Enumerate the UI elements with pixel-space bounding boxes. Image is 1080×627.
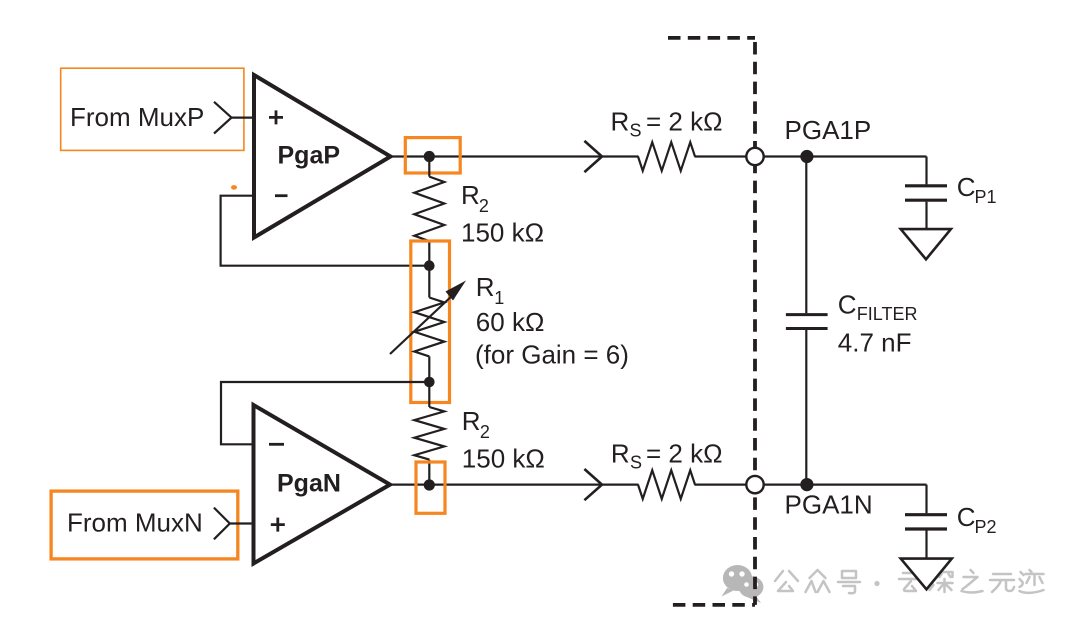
R1 variable arrow head — [446, 281, 467, 301]
watermark wechat icon — [722, 565, 764, 603]
glyph hao — [838, 571, 860, 593]
svg-text:4.7 nF: 4.7 nF — [838, 327, 912, 357]
highlight box PgaP output node — [405, 138, 460, 173]
svg-text:PgaP: PgaP — [278, 141, 341, 169]
capacitor CP1 plates — [905, 186, 947, 200]
capacitor CP2 wire lower — [925, 531, 927, 559]
svg-text:R: R — [611, 439, 630, 469]
node PgaP output junction dot — [424, 151, 435, 162]
svg-text:2: 2 — [479, 196, 489, 216]
wire boundary to PGA1N node — [764, 484, 927, 486]
wire MuxN input to PgaN + — [230, 522, 256, 524]
highlight box PgaN output node — [416, 462, 445, 513]
resistor R1 zigzag — [414, 298, 444, 357]
glyph middle dot — [874, 581, 879, 586]
R1 variable arrow shaft — [390, 293, 455, 354]
glyph shen — [930, 572, 953, 592]
signal arrow top wire — [584, 141, 602, 172]
op-amp PgaN — [254, 405, 391, 564]
svg-text:From MuxP: From MuxP — [70, 102, 204, 132]
svg-text:2: 2 — [480, 422, 490, 442]
svg-text:150 kΩ: 150 kΩ — [461, 218, 544, 248]
node PgaN output junction dot — [424, 479, 435, 490]
resistor R1 lead upper — [428, 266, 430, 298]
resistor R2 top lead lower — [428, 241, 430, 266]
svg-text:S: S — [630, 121, 642, 141]
boundary dashed line vertical segment — [753, 42, 757, 605]
node R1 top junction dot — [424, 260, 435, 271]
resistor R2 bottom lead lower — [428, 460, 430, 485]
wire boundary to PGA1P node — [764, 155, 927, 157]
capacitor CFILTER wire upper — [805, 157, 807, 314]
capacitor CP2 plates — [905, 515, 947, 529]
svg-text:FILTER: FILTER — [857, 304, 918, 324]
svg-text:PgaN: PgaN — [277, 469, 341, 497]
capacitor CP1 wire upper — [925, 157, 927, 185]
resistor RS bottom — [638, 470, 695, 499]
svg-text:R: R — [611, 107, 630, 137]
highlight box R1 — [411, 241, 450, 403]
stray orange dot — [231, 185, 237, 190]
svg-text:= 2 kΩ: = 2 kΩ — [646, 107, 723, 137]
glyph wu — [990, 574, 1014, 592]
wire PgaN output to RS — [387, 484, 639, 486]
resistor R2 bottom zigzag — [414, 407, 444, 460]
PgaN minus input symbol — [269, 443, 284, 446]
node PGA1N junction dot — [800, 478, 813, 491]
wire MuxP input to PgaP + — [232, 116, 257, 118]
watermark text 公众号·云深之无迹 — [775, 570, 1044, 593]
feedback wire PgaN minus to R1 bottom node — [221, 382, 429, 444]
node R1 bottom junction dot — [424, 377, 435, 388]
svg-text:C: C — [957, 172, 976, 202]
input box From MuxN — [51, 491, 238, 559]
wire PgaP output to RS — [388, 155, 639, 157]
input port arrow MuxN — [214, 508, 230, 540]
capacitor CP1 wire lower — [925, 202, 927, 229]
feedback wire PgaP minus to R2/R1 node — [221, 196, 430, 266]
PgaN plus input symbol — [271, 518, 285, 532]
node PGA1P open circle on boundary — [746, 148, 763, 165]
svg-text:R: R — [476, 272, 495, 302]
node PGA1P junction dot — [800, 150, 813, 163]
glyph gong — [775, 571, 798, 591]
svg-text:60 kΩ: 60 kΩ — [476, 307, 545, 337]
resistor R2 top zigzag — [414, 177, 444, 242]
svg-text:C: C — [838, 289, 857, 319]
glyph ji — [1020, 570, 1044, 593]
input port arrow MuxP — [214, 102, 232, 134]
op-amp PgaP — [254, 75, 391, 238]
resistor RS top — [638, 142, 695, 171]
svg-text:PGA1P: PGA1P — [785, 115, 872, 145]
glyph zhi — [962, 570, 983, 593]
resistor R2 top lead upper — [428, 157, 430, 177]
wire RS to boundary circle — [695, 155, 747, 157]
wire RS bottom to boundary circle — [695, 484, 747, 486]
boundary dashed line bottom segment — [673, 603, 755, 607]
svg-text:C: C — [957, 502, 976, 532]
input box From MuxP — [61, 68, 244, 150]
node PGA1N open circle on boundary — [746, 476, 763, 493]
svg-text:R: R — [461, 180, 480, 210]
capacitor CFILTER plates — [786, 315, 828, 329]
capacitor CP2 wire upper — [925, 485, 927, 514]
glyph zhong — [806, 570, 830, 592]
svg-text:(for Gain = 6): (for Gain = 6) — [475, 340, 629, 370]
svg-text:150 kΩ: 150 kΩ — [462, 444, 545, 474]
svg-text:1: 1 — [494, 288, 504, 308]
PgaP plus input symbol — [269, 110, 283, 124]
ground CP1 — [901, 229, 951, 259]
svg-text:R: R — [462, 406, 481, 436]
glyph yun — [899, 573, 922, 591]
signal arrow bottom wire — [584, 469, 602, 500]
PgaP minus input symbol — [275, 194, 288, 197]
capacitor CFILTER wire lower — [805, 330, 807, 485]
svg-text:P1: P1 — [975, 187, 997, 207]
svg-text:= 2 kΩ: = 2 kΩ — [646, 439, 723, 469]
ground CP2 — [901, 559, 952, 590]
resistor R2 bottom lead upper — [428, 382, 430, 407]
svg-text:S: S — [630, 453, 642, 473]
svg-text:PGA1N: PGA1N — [785, 490, 873, 520]
svg-text:From MuxN: From MuxN — [67, 507, 203, 537]
boundary dashed line top segment — [668, 36, 755, 40]
resistor R1 lead lower — [428, 356, 430, 382]
svg-text:P2: P2 — [975, 517, 997, 537]
